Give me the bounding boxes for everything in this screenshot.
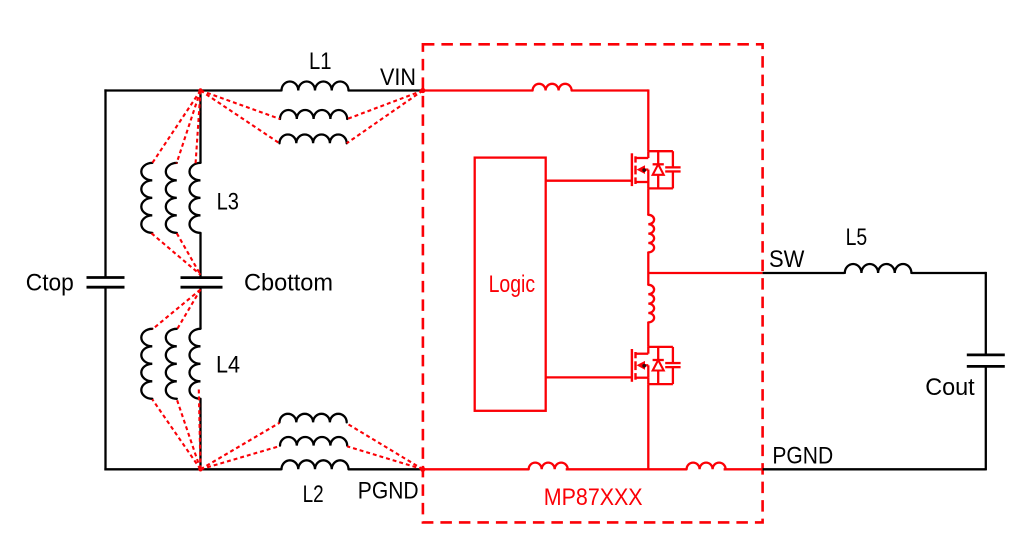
inductor L2 winding 1 (main, on wire) (282, 460, 349, 469)
label L2 (303, 482, 324, 508)
node VIN (junction dot) (420, 88, 425, 93)
node PGND (junction dot) (420, 467, 425, 472)
coupling dashed line: top node to L3 winding 3 (196, 91, 201, 165)
capacitor Ctop (87, 278, 125, 288)
parasitic inductor Q2 drain (648, 285, 654, 323)
svg-text:PGND: PGND (772, 443, 833, 469)
label L3 (217, 190, 239, 216)
parasitic inductor PGND rail left (529, 463, 568, 470)
wire middle vertical: junction to L3 (199, 91, 201, 164)
transistor Q1 (high-side MOSFET with body diode) (632, 151, 681, 188)
label L1 (309, 49, 332, 75)
label Logic (489, 272, 536, 298)
parasitic inductor PGND rail right (687, 463, 726, 470)
node top junction (dot) (198, 88, 202, 92)
wire L2 to PGND node (349, 468, 424, 470)
svg-text:L4: L4 (216, 353, 240, 379)
capacitor Cout (967, 355, 1005, 367)
coupling dashed line: Cbottom node to L4 winding 1 (152, 290, 200, 330)
svg-text:L2: L2 (303, 482, 324, 508)
svg-text:L1: L1 (309, 49, 332, 75)
coupling dashed line: top node to L3 winding 1 (152, 91, 201, 164)
svg-text:SW: SW (769, 247, 805, 273)
capacitor Cbottom (181, 278, 223, 288)
wire left vertical upper (Ctop branch) (104, 89, 106, 277)
coupling dashed line: Cbottom node to L4 winding 2 (177, 290, 200, 330)
label L4 (216, 353, 240, 379)
wire middle vertical: Cbottom to L4 (199, 287, 201, 329)
inductor L1 winding 2 (280, 110, 347, 119)
coupling dashed line: bottom node to L4 winding 2 (177, 399, 201, 469)
coupling dashed line: bottom node to L2 winding 3 (201, 423, 280, 470)
wire VIN node to input parasitic inductor (423, 89, 533, 91)
coupling dashed line: L3 winding 1 to Cbottom node (152, 233, 201, 274)
coupling dashed line: top node to L1 winding 2 (201, 91, 281, 120)
inductor L3 winding 1 (141, 163, 152, 233)
parasitic inductor on VIN rail (533, 84, 572, 91)
label MP87XXX (544, 485, 643, 511)
label Cbottom (244, 270, 333, 296)
label PGND left (358, 478, 419, 504)
svg-text:MP87XXX: MP87XXX (544, 485, 643, 511)
label Ctop (26, 270, 74, 296)
svg-text:VIN: VIN (380, 65, 416, 91)
wire Q2 source to PGND rail (647, 384, 649, 469)
wire Q1 source to parasitic inductor (647, 188, 649, 215)
inductor L3 winding 2 (166, 163, 177, 233)
wire L5 to right corner (912, 272, 986, 355)
coupling dashed line: PGND node to L2 winding 2 (347, 446, 423, 469)
inductor L4 winding 3 (on wire) (190, 329, 201, 399)
parasitic inductor Q1 source (648, 215, 654, 253)
coupling dashed line: bottom node to L4 winding 1 (152, 399, 200, 469)
wire inductor to Q2 drain (647, 322, 649, 347)
wire bottom right horizontal (763, 468, 986, 470)
coupling dashed line: L3 winding 2 to Cbottom node (177, 233, 201, 274)
svg-text:PGND: PGND (358, 478, 419, 504)
wire between PGND inductors (566, 468, 687, 470)
wire Cout to bottom right corner (985, 366, 987, 470)
svg-text:L5: L5 (846, 225, 868, 251)
wire inductor to SW junction to next inductor (647, 252, 649, 284)
svg-text:Cbottom: Cbottom (244, 270, 333, 296)
wire SW black (IC edge to L5) (763, 272, 844, 274)
coupling dashed line: VIN node to L1 winding 2 (347, 91, 423, 120)
label PGND right (772, 443, 833, 469)
inductor L5 (845, 264, 912, 273)
logic block U1 (475, 158, 546, 411)
inductor L3 winding 3 (on wire) (190, 163, 201, 233)
coupling dashed line: bottom node to L2 winding 2 (201, 446, 281, 469)
wire left vertical lower (104, 287, 106, 470)
inductor L2 winding 3 (280, 414, 347, 423)
inductor L4 winding 2 (166, 329, 177, 399)
wire SW red (junction to IC edge) (648, 272, 762, 274)
coupling dashed line: VIN node to L1 winding 3 (347, 91, 423, 144)
svg-text:Logic: Logic (489, 272, 536, 298)
coupling dashed line: top node to L3 winding 2 (177, 91, 201, 164)
IC boundary box MP87XXX (dashed) (423, 44, 763, 522)
wire PGND inductor to IC edge (724, 468, 763, 470)
wire top-left horizontal (Ctop corner to L1) (104, 89, 281, 91)
coupling dashed line: top node to L1 winding 3 (201, 91, 280, 144)
inductor L1 winding 3 (280, 135, 347, 144)
inductor L4 winding 1 (141, 329, 152, 399)
svg-text:L3: L3 (217, 190, 239, 216)
svg-text:Cout: Cout (925, 375, 975, 401)
inductor L1 winding 1 (main, on wire) (282, 82, 349, 91)
label SW (769, 247, 805, 273)
svg-text:Ctop: Ctop (26, 270, 74, 296)
wire input inductor to Q1 drain corner (572, 89, 649, 151)
wire L1 to VIN node (349, 89, 424, 91)
wire Logic to Q1 gate (546, 180, 633, 182)
label VIN (380, 65, 416, 91)
label L5 (846, 225, 868, 251)
wire middle vertical: L3 to Cbottom (199, 233, 201, 278)
coupling dashed line: PGND node to L2 winding 3 (346, 423, 422, 469)
node bottom junction (dot) (198, 467, 202, 471)
wire middle vertical: L4 to bottom junction (199, 399, 201, 470)
label Cout (925, 375, 975, 401)
wire bottom-left horizontal (104, 468, 281, 470)
wire Logic to Q2 gate (546, 376, 633, 378)
inductor L2 winding 2 (280, 437, 347, 446)
coupling dashed line: bottom node to L4 winding 3 (199, 390, 201, 470)
transistor Q2 (low-side MOSFET with body diode) (632, 347, 681, 384)
wire PGND node to parasitic inductor (423, 468, 529, 470)
